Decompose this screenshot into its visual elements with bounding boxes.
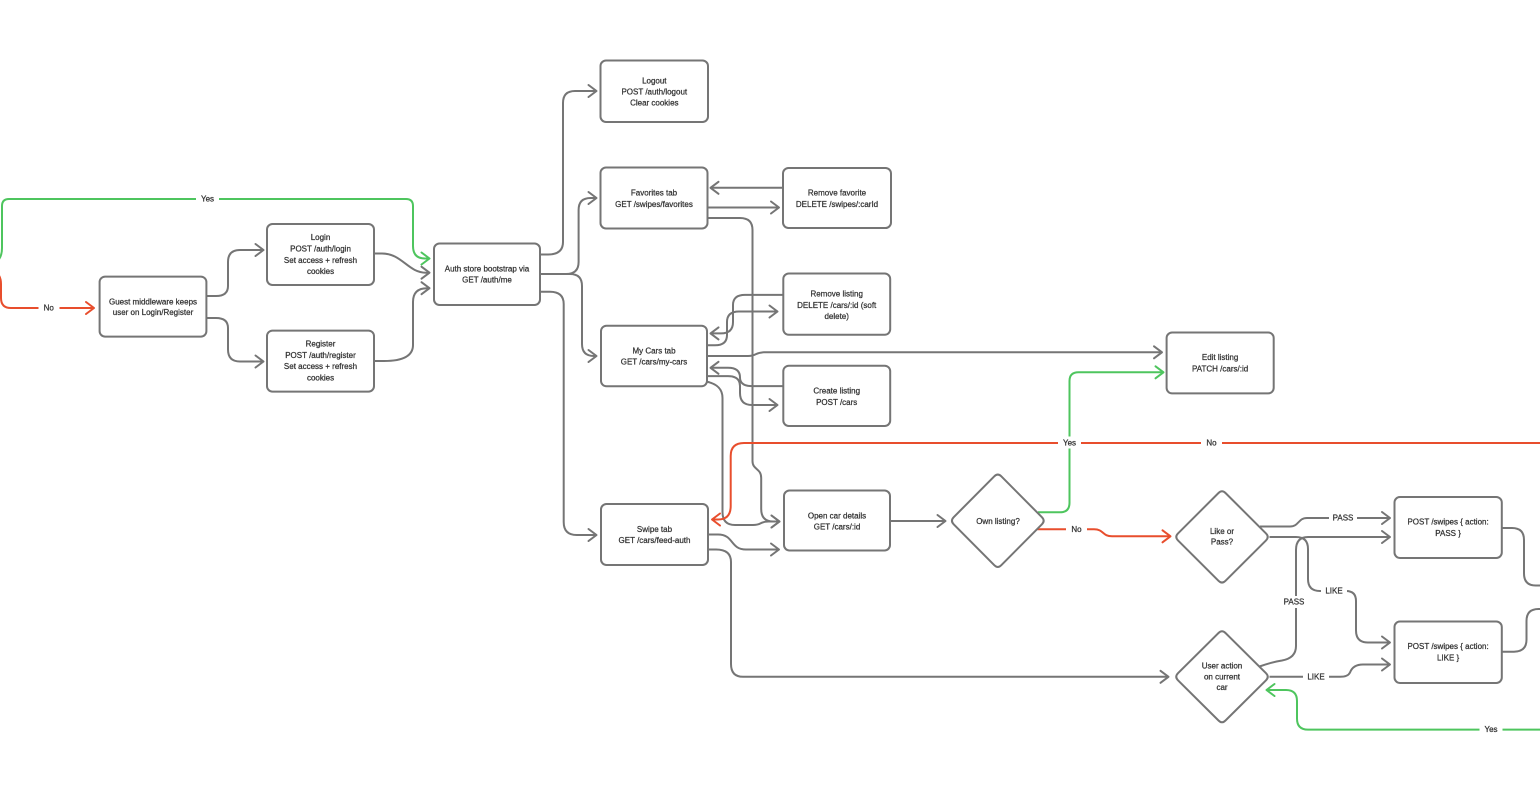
svg-text:Own listing?: Own listing? [976, 517, 1020, 526]
svg-text:Clear cookies: Clear cookies [630, 99, 678, 108]
svg-text:Remove favorite: Remove favorite [808, 189, 867, 198]
svg-text:Guest middleware keeps: Guest middleware keeps [109, 298, 197, 307]
svg-text:Login: Login [311, 233, 331, 242]
svg-text:delete): delete) [824, 312, 849, 321]
svg-text:POST /cars: POST /cars [816, 398, 857, 407]
svg-text:User action: User action [1202, 662, 1242, 671]
svg-text:Open car details: Open car details [808, 511, 866, 520]
svg-text:Logout: Logout [642, 76, 667, 85]
svg-text:Yes: Yes [1063, 438, 1076, 447]
svg-text:GET /cars/my-cars: GET /cars/my-cars [621, 358, 688, 367]
svg-text:DELETE /swipes/:carId: DELETE /swipes/:carId [796, 200, 878, 209]
svg-text:LIKE }: LIKE } [1437, 653, 1460, 662]
svg-text:GET /swipes/favorites: GET /swipes/favorites [615, 200, 693, 209]
svg-text:Swipe tab: Swipe tab [637, 525, 673, 534]
svg-text:on current: on current [1204, 672, 1241, 681]
svg-text:POST /auth/logout: POST /auth/logout [621, 88, 687, 97]
svg-text:cookies: cookies [307, 267, 334, 276]
svg-text:Pass?: Pass? [1211, 537, 1234, 546]
svg-text:Set access + refresh: Set access + refresh [284, 362, 357, 371]
svg-text:Like or: Like or [1210, 527, 1234, 536]
svg-text:Set access + refresh: Set access + refresh [284, 256, 357, 265]
svg-text:No: No [44, 304, 55, 313]
svg-text:Favorites tab: Favorites tab [631, 189, 678, 198]
svg-text:Create listing: Create listing [813, 387, 860, 396]
svg-text:POST /swipes { action:: POST /swipes { action: [1407, 518, 1488, 527]
svg-text:Auth store bootstrap via: Auth store bootstrap via [445, 264, 530, 273]
svg-text:My Cars tab: My Cars tab [632, 347, 676, 356]
svg-text:POST /auth/register: POST /auth/register [285, 351, 356, 360]
svg-text:car: car [1216, 683, 1227, 692]
svg-text:LIKE: LIKE [1307, 673, 1324, 682]
svg-text:PASS }: PASS } [1435, 529, 1461, 538]
svg-text:GET /auth/me: GET /auth/me [462, 276, 512, 285]
svg-text:Yes: Yes [201, 195, 214, 204]
svg-text:cookies: cookies [307, 374, 334, 383]
svg-text:POST /swipes { action:: POST /swipes { action: [1407, 642, 1488, 651]
svg-text:Register: Register [306, 339, 336, 348]
svg-text:PASS: PASS [1284, 598, 1305, 607]
svg-text:No: No [1206, 439, 1217, 448]
svg-text:Edit listing: Edit listing [1202, 353, 1238, 362]
svg-text:No: No [1071, 525, 1082, 534]
svg-text:user on Login/Register: user on Login/Register [113, 308, 194, 317]
svg-text:Remove listing: Remove listing [810, 289, 862, 298]
svg-text:GET /cars/feed-auth: GET /cars/feed-auth [619, 536, 691, 545]
svg-text:PATCH /cars/:id: PATCH /cars/:id [1192, 365, 1248, 374]
svg-text:POST /auth/login: POST /auth/login [290, 245, 351, 254]
svg-text:LIKE: LIKE [1325, 587, 1342, 596]
svg-text:PASS: PASS [1333, 514, 1354, 523]
svg-text:DELETE /cars/:id (soft: DELETE /cars/:id (soft [797, 301, 877, 310]
svg-text:GET /cars/:id: GET /cars/:id [814, 523, 861, 532]
svg-text:Yes: Yes [1484, 725, 1497, 734]
